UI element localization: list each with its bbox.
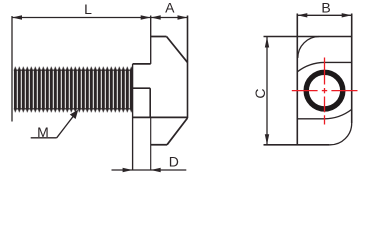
collar / head bottom line <box>133 116 188 118</box>
threaded hole ring <box>306 72 343 109</box>
head top chamfer <box>167 37 188 63</box>
collar left edge + extension line for D <box>132 64 134 171</box>
red centerline horizontal <box>292 90 358 92</box>
svg-text:D: D <box>169 154 179 170</box>
red centerline vertical <box>324 58 326 125</box>
inner shaft line horizontal <box>133 87 151 89</box>
arrow A right <box>178 15 188 19</box>
upper chamfer edge arc <box>297 62 324 71</box>
C extension overshoot ticks already part of edges; dimension line C <box>266 37 268 145</box>
M leader arrowhead <box>70 110 78 119</box>
head right edge + extension of A dim <box>187 16 189 119</box>
svg-text:L: L <box>84 1 92 17</box>
body right edge + B extension <box>351 14 353 124</box>
head bottom chamfer <box>167 118 188 145</box>
dimension line L <box>12 17 151 19</box>
svg-text:B: B <box>321 0 330 16</box>
body bottom edge + C extension <box>264 144 330 146</box>
lower chamfer edge arc <box>325 109 352 118</box>
arrow L right <box>141 15 151 19</box>
collar (neck) top edge <box>133 63 151 65</box>
dimension line B <box>297 14 351 16</box>
M leader underline <box>31 137 57 139</box>
svg-text:C: C <box>252 89 268 99</box>
top-left corner arc <box>298 37 320 59</box>
thread crest top silhouette line <box>14 69 133 71</box>
M leader diagonal <box>57 112 77 138</box>
head bottom edge <box>151 144 167 146</box>
arrow D right (outside, pointing left) <box>151 168 161 172</box>
arrow L left <box>12 15 22 19</box>
dimension line A <box>151 17 188 19</box>
bottom-right corner arc <box>330 123 352 145</box>
head top edge <box>151 36 167 38</box>
body left edge + B extension <box>296 14 298 145</box>
extension line left end of L <box>11 16 13 122</box>
arrow D left (outside, pointing right) <box>123 168 133 172</box>
upper chamfer edge line <box>325 61 352 63</box>
dimension line D <box>112 169 187 171</box>
thread crest bottom silhouette line <box>14 108 133 110</box>
head lower-left edge + extension line for D <box>150 117 152 170</box>
arrow B left <box>297 13 307 17</box>
arrow B right <box>342 13 352 17</box>
head left edge + extension of L/A dims <box>150 16 152 64</box>
lower chamfer edge line <box>297 118 324 120</box>
inner shaft line vertical <box>149 88 151 117</box>
body top edge + C extension <box>264 36 352 38</box>
svg-text:A: A <box>165 0 175 16</box>
arrow C top <box>265 37 269 48</box>
arrow A left <box>151 15 161 19</box>
threaded shaft M : thread teeth <box>14 66 133 113</box>
arrow C bottom <box>265 134 269 145</box>
